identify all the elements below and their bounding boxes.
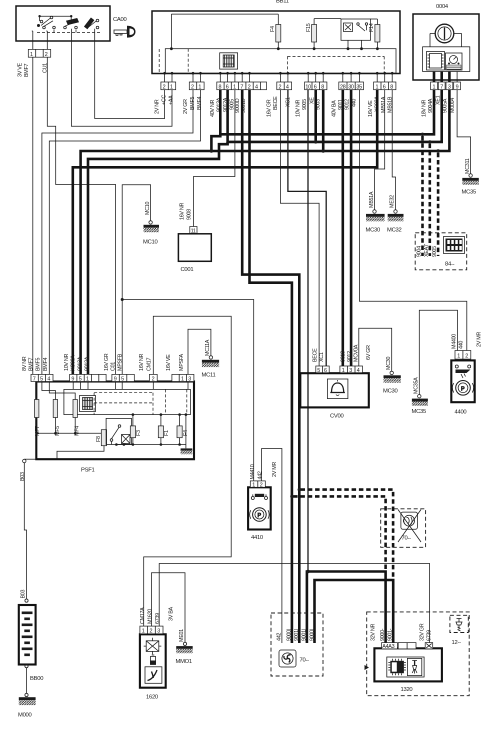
svg-text:XC00A: XC00A [71,355,77,371]
fuse F14 [375,25,380,43]
svg-text:B03: B03 [20,590,26,599]
connector box 84 [415,233,467,270]
wire MB51A to MC30 [375,90,385,210]
wire MPSFA to MC11 [188,329,211,374]
wire BECE BSI.D2 to CV00.5 [280,90,319,366]
0004 pin row 1|7|3|9 [431,82,438,90]
svg-text:M000: M000 [18,713,32,719]
svg-text:3: 3 [188,377,191,383]
CV00 pin group 1|3|4 [340,366,363,373]
ignition switch box CA00 [16,6,110,41]
fan icon 70 lower [279,650,296,667]
wire 9000D trunk BSI.C7 [242,90,299,643]
4410 contact icon [251,494,267,500]
svg-text:MC30: MC30 [366,228,380,234]
svg-text:6: 6 [324,368,327,374]
svg-text:7: 7 [240,85,243,91]
svg-text:BMF4: BMF4 [197,97,203,110]
svg-text:1: 1 [252,483,255,489]
horn CV00 [300,373,369,407]
wire 9005 BSI.E10 long [307,90,309,572]
svg-text:BECE: BECE [273,96,279,110]
wire +CC CA00 to BSI [95,41,165,119]
svg-text:8: 8 [321,85,324,91]
wire ground net to 4410 [122,300,254,481]
svg-text:9: 9 [114,377,117,383]
svg-text:9012A: 9012A [85,356,91,371]
svg-text:MC311: MC311 [465,158,471,174]
wire 9004A 0004.1 to BSI.C8 [220,90,434,135]
svg-text:MC35: MC35 [462,190,476,196]
svg-text:1: 1 [86,377,89,383]
0004 pin stubs [434,72,449,83]
handbrake switch 4400 [451,360,474,402]
wire 9003 branch BSI.E8 [322,90,325,151]
svg-text:XC1: XC1 [319,352,325,362]
svg-text:40V NR: 40V NR [210,100,216,117]
wire M4400 to MC35 [419,310,457,394]
svg-text:40V BA: 40V BA [332,100,338,117]
svg-text:6V GR: 6V GR [366,345,372,360]
switch S1 in CA00 [37,15,72,29]
svg-text:P: P [258,513,262,519]
BSI pin group C 8|6|1|7|2|4 [217,82,267,90]
svg-text:CA00: CA00 [113,17,127,23]
svg-text:XE1: XE1 [435,95,441,105]
svg-text:9012: 9012 [347,351,353,362]
svg-text:1: 1 [142,629,145,635]
svg-text:9000|: 9000| [287,629,293,641]
diagnostic connector C001 [178,234,211,261]
svg-text:9013A: 9013A [78,356,84,371]
svg-text:8V NR: 8V NR [22,356,28,371]
svg-text:9: 9 [456,85,459,91]
ground MC30 lower [390,371,393,374]
PSF1 connector grid icon [80,396,96,412]
svg-text:35: 35 [356,85,362,91]
relay in BSI [341,19,371,40]
wire CA00 internal drops [32,29,95,41]
svg-text:2V NR: 2V NR [155,99,161,114]
wire 9013A jog from BSI.C8 [211,134,220,151]
wire 6739 1620.3 to 1320 [159,564,429,643]
svg-text:442: 442 [258,471,264,479]
PSF1 bottom rail [116,444,185,446]
svg-text:9000-: 9000- [380,628,386,641]
dashed link 9000 to right [293,496,386,569]
svg-text:10V NR: 10V NR [296,100,302,117]
PSF1 pin stubs into bus [37,382,188,400]
svg-text:4: 4 [357,368,360,374]
4410 P icon [250,508,269,522]
svg-text:MC35: MC35 [412,409,426,415]
ground MC35 lower [418,395,421,398]
svg-text:3V VE: 3V VE [18,63,24,77]
BSI top feed wire [171,14,278,49]
option box 70 upper [381,509,426,548]
ground MC11 [209,356,212,359]
ground MC32 [394,210,397,213]
PSF1 pin 2 [149,374,157,381]
svg-text:CV00: CV00 [330,414,344,420]
0004 small gauge icon [446,53,463,70]
svg-text:5: 5 [317,368,320,374]
svg-text:1620: 1620 [146,695,158,701]
wire BMF7 CU1.1 to PSF1 pin7 [32,57,34,374]
svg-text:84--: 84-- [445,262,455,268]
wire elbow to 1320.A3 [315,580,394,648]
svg-text:1: 1 [170,85,173,91]
wire 9013A main 0004.3 to PSF1 [81,90,450,375]
svg-text:9000|: 9000| [309,629,315,641]
1620 pin row 1|2|3 [140,626,163,634]
BSI inner dashed partitions [159,49,384,73]
fuse box PSF1 [36,382,194,460]
relay in PSF1 [106,418,131,444]
1320 pin 6739 [425,643,433,649]
connector C001 pin [190,227,197,234]
switch S2 in CA00 [64,16,79,29]
svg-text:0004: 0004 [436,4,449,10]
svg-text:MF7: MF7 [35,426,41,436]
svg-text:C01: C01 [111,362,117,371]
svg-text:F14: F14 [369,23,375,32]
svg-text:4410: 4410 [251,535,263,541]
svg-text:9008: 9008 [186,209,192,220]
svg-text:4: 4 [255,85,258,91]
svg-text:MC10: MC10 [143,240,157,246]
svg-text:4: 4 [286,85,289,91]
gauge circle in 0004 [435,24,454,43]
fuse F15 [312,25,317,43]
connector icon in 84 [444,237,465,254]
PSF1 internal ground [185,415,187,449]
svg-text:3: 3 [349,368,352,374]
wire CM17 PSF1 to 1620 [144,316,232,626]
PSF1 inner bus box [64,389,190,414]
key icon [114,26,136,38]
BSI connector grid icon [220,53,238,69]
svg-text:8: 8 [219,85,222,91]
svg-text:10V NR: 10V NR [64,354,70,371]
wire 9012A BSI.C6 to PSF1 [88,142,228,375]
svg-text:16V GR: 16V GR [267,99,273,117]
4400 pin row 1|2 [455,351,471,360]
svg-text:BB11: BB11 [276,0,289,5]
svg-text:16V GR: 16V GR [104,353,110,371]
svg-text:F15: F15 [306,23,312,32]
PSF1 pin group 1|3 [172,374,194,381]
svg-text:2V MR: 2V MR [476,332,482,347]
svg-text:+CC: +CC [161,95,167,105]
fuse F4 [276,25,281,43]
bell icon [327,379,348,399]
svg-text:6: 6 [314,85,317,91]
svg-text:BMF5: BMF5 [36,358,42,371]
svg-text:BB00: BB00 [30,676,43,682]
svg-text:2V MR: 2V MR [272,462,278,477]
fuse F1 [160,415,162,445]
wire 440 BSI.F35 to 4400.2 [359,90,466,351]
svg-text:28: 28 [340,85,346,91]
svg-text:MMO1: MMO1 [176,659,192,665]
wire B03 battery feed [24,463,26,599]
wire +AA CA00 to BSI [71,41,172,126]
svg-text:2: 2 [163,85,166,91]
svg-text:1: 1 [30,52,33,58]
option box 12 [450,615,468,632]
svg-text:16V VE: 16V VE [166,354,172,371]
svg-text:M1620: M1620 [148,609,154,624]
svg-text:PSF1: PSF1 [81,468,95,474]
wire XE branch BSI.E6 [314,90,317,142]
switch S3 in CA00 [85,18,99,29]
svg-text:B03: B03 [20,472,26,481]
svg-text:MC10: MC10 [145,202,151,215]
BSI pin group D 2|4 [277,82,292,90]
svg-text:6: 6 [226,85,229,91]
injector icon [407,658,421,675]
dashed link line in CA00 [37,29,100,33]
fuse F3 [132,415,134,445]
svg-text:7: 7 [33,377,36,383]
svg-text:9001|: 9001| [294,629,300,641]
svg-text:MC30: MC30 [383,389,397,395]
svg-text:16V VE: 16V VE [368,100,374,117]
svg-text:BECE: BECE [312,348,318,362]
wire 9012 BSI.F30 to CV00.3 [350,90,353,366]
svg-text:MC11A: MC11A [205,339,211,356]
svg-text:MB51A: MB51A [369,191,375,208]
svg-text:10: 10 [305,85,311,91]
BSI pin group A 2|1 [161,82,176,90]
0004 display icon [427,52,445,71]
svg-text:2: 2 [279,85,282,91]
svg-text:MCV0A: MCV0A [353,344,359,362]
handbrake switch 4410 [248,487,271,529]
svg-text:9001|: 9001| [302,629,308,641]
wire BMF5 BSI.B2 to PSF1.5 [42,90,193,375]
ground MC10 [149,221,152,224]
1620 lamp icon [144,638,162,655]
ground MC35 top right [469,174,472,177]
svg-text:CM17A: CM17A [140,607,146,624]
wire battery to ground [25,665,28,668]
svg-text:1: 1 [342,368,345,374]
svg-text:1: 1 [233,85,236,91]
svg-text:18V NR: 18V NR [422,100,428,117]
fuse F4 [179,415,181,445]
wire B03 stub [24,458,36,460]
PSF1 pin group 9|5 [112,374,134,381]
svg-text:BMF7: BMF7 [24,64,30,77]
svg-text:9013: 9013 [340,351,346,362]
svg-text:MC32: MC32 [387,228,401,234]
svg-text:30: 30 [348,85,354,91]
svg-text:M4400: M4400 [451,334,457,349]
4400 lever icon [455,365,470,378]
svg-text:1: 1 [433,85,436,91]
1620 battery icon [150,655,155,665]
svg-text:CM17: CM17 [147,358,153,371]
wire 9008 BSI.C1 to C001 [194,90,235,227]
svg-text:2V GR: 2V GR [183,99,189,114]
svg-text:1: 1 [181,377,184,383]
svg-text:4: 4 [47,377,50,383]
svg-text:1: 1 [376,85,379,91]
svg-text:F1: F1 [164,430,170,436]
svg-text:F3: F3 [136,430,142,436]
BSI pin group E 10|6|8 [305,82,327,90]
svg-text:9004: 9004 [417,246,423,257]
svg-text:BMF7: BMF7 [28,358,34,371]
1320 pin A4A3 [382,643,398,649]
svg-text:9001-: 9001- [387,628,393,641]
svg-text:2: 2 [45,52,48,58]
svg-text:XEA7: XEA7 [424,244,430,257]
dashed tap 9004 to 84 box [421,136,424,256]
svg-text:70--: 70-- [402,536,412,542]
chip icon [388,659,406,675]
instrument cluster 0004 [413,14,479,80]
wire 9001D trunk BSI.C2 [250,90,292,643]
wire relay to B03 corner [57,441,126,459]
BSI pin group B 2|1 [189,82,204,90]
svg-text:MC11: MC11 [202,373,216,379]
fuse MF4 [73,400,77,418]
svg-text:2: 2 [248,85,251,91]
wire 9005 elbow to 1320.A4 [307,572,386,649]
wire XC00A BSI.G1 to PSF1 [73,90,377,375]
svg-text:3V BA: 3V BA [169,607,175,621]
svg-text:2: 2 [191,85,194,91]
option box 70 lower [271,613,323,676]
ECU 1320 box [374,648,442,681]
4400 P icon [452,381,473,396]
1320 inner icon panel [387,657,424,677]
ground M000 [25,693,28,696]
fuse F8 [101,430,106,446]
wire XE1 0004.7 to BSI.C6 [228,90,442,142]
battery BB00 [25,599,28,602]
engine ECU 1320 outer dashed [367,612,470,696]
PSF1 lower rail [37,418,104,434]
svg-text:3: 3 [448,85,451,91]
fuse MF7 [35,400,39,418]
svg-text:5: 5 [79,377,82,383]
wire 442 4410.2 to 70 box [262,449,282,644]
svg-text:MC35A: MC35A [414,377,420,394]
fuse MF5 [53,400,57,418]
svg-text:3: 3 [157,629,160,635]
plug icon 12 [456,619,462,632]
svg-text:9005A: 9005A [442,98,448,113]
svg-text:A4A3: A4A3 [382,644,394,650]
connector CU1 [28,49,50,57]
svg-text:70--: 70-- [300,658,310,664]
svg-text:32V NR: 32V NR [371,624,377,641]
svg-text:MC30: MC30 [386,357,392,370]
svg-text:+AA: +AA [169,95,175,105]
ground MM01 [183,642,186,645]
svg-text:1: 1 [457,354,460,360]
svg-text:9012: 9012 [344,99,350,110]
CV00 pin group 5|6 [316,366,329,373]
PSF1 pin group 7|5|4 [31,374,53,381]
svg-text:F4: F4 [270,26,276,32]
wire 9013 BSI.F28 to CV00.1 [341,90,344,366]
svg-text:ME01: ME01 [179,629,185,642]
0004 inner unit box [423,47,470,72]
svg-text:2: 2 [260,483,263,489]
1620 gauge icon [145,667,162,684]
dashed tap 9005 to 84 box [437,153,440,256]
svg-text:16V NR: 16V NR [139,354,145,371]
dashed link 9001 to right [301,490,394,578]
svg-text:BMF4: BMF4 [43,358,49,371]
svg-text:4400: 4400 [455,410,467,416]
svg-text:440: 440 [459,341,465,349]
warning lamp unit 1620 [140,634,166,687]
svg-text:P: P [461,386,465,392]
svg-text:12--: 12-- [452,640,462,646]
svg-text:1320: 1320 [401,687,413,693]
dashed tap XEA to 84 box [428,144,431,256]
svg-text:1: 1 [198,85,201,91]
BSI pin group F 28|30|35 [339,82,364,90]
svg-text:7: 7 [440,85,443,91]
svg-text:9005: 9005 [432,246,438,257]
wire MPSFB PSF1 to MC10 [122,185,150,375]
svg-text:32V GR: 32V GR [419,623,425,641]
speaker icon crossed [401,512,418,529]
svg-text:MB51B: MB51B [388,96,394,113]
ground MC30 [373,210,376,213]
wire M1620 to MM01 [152,573,186,642]
svg-text:2: 2 [150,629,153,635]
svg-text:5: 5 [121,377,124,383]
wire C01 CU1.2 to PSF1 pin9 [47,57,115,374]
svg-text:2: 2 [465,354,468,360]
4410 pin row 1|2 [250,481,265,487]
PSF1 pin group 9|5|1 [70,374,107,381]
svg-text:M0004: M0004 [450,98,456,113]
BSI inner bus box [165,49,396,73]
wire MCV0A to MC30 [359,328,392,371]
svg-text:8: 8 [390,85,393,91]
svg-text:16V NR: 16V NR [179,203,185,220]
svg-text:MPSFB: MPSFB [118,353,124,371]
wire MB51B to MC32 [392,90,395,210]
svg-text:C001: C001 [181,267,194,273]
svg-text:MPSFA: MPSFA [179,354,185,371]
svg-text:ME32: ME32 [390,195,396,208]
BSI pin group G 1|6|8 [374,82,396,90]
svg-text:6739: 6739 [155,613,161,624]
svg-text:9005: 9005 [302,99,308,110]
wire XC1 BSI.D4 to CV00.6 [288,90,326,366]
svg-text:MB51A: MB51A [381,96,387,113]
wire M0004 to MC35 [457,90,471,174]
wire BMF4 BSI.B1 to PSF1.4 [49,90,200,375]
BSI1 box [152,11,400,74]
svg-text:M4410: M4410 [250,464,256,479]
svg-text:F8: F8 [96,436,102,442]
svg-text:442: 442 [277,633,283,641]
svg-text:6: 6 [383,85,386,91]
